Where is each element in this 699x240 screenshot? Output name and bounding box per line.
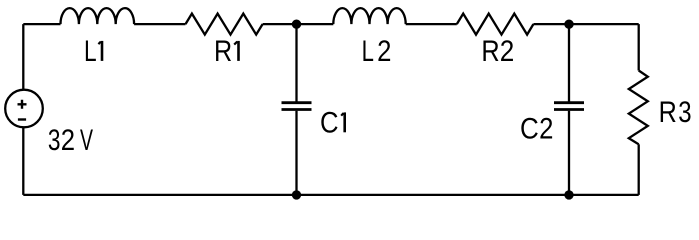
- svg-text:C: C: [520, 112, 539, 145]
- svg-text:R: R: [659, 95, 677, 129]
- svg-text:2: 2: [500, 34, 515, 67]
- svg-text:2: 2: [61, 123, 75, 156]
- svg-text:R: R: [481, 34, 499, 68]
- svg-text:2: 2: [539, 111, 553, 144]
- svg-text:R: R: [214, 34, 232, 68]
- svg-text:2: 2: [377, 34, 391, 67]
- svg-text:3: 3: [678, 95, 691, 129]
- svg-text:C: C: [320, 106, 339, 139]
- svg-text:L: L: [362, 34, 374, 68]
- svg-text:L: L: [84, 34, 97, 68]
- svg-text:V: V: [80, 124, 93, 157]
- svg-text:3: 3: [48, 123, 61, 157]
